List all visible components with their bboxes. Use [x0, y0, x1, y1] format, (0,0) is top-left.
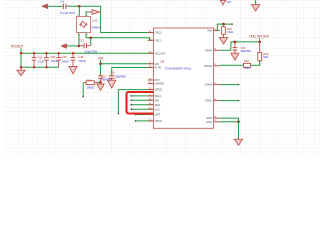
wire (port to C12): [48, 5, 63, 7]
ground (C62): [97, 82, 104, 90]
junction (C13 tap on OSC1 net): [89, 36, 92, 39]
capacitor C60 (100nF): [44, 53, 58, 67]
svg-text:nINT: nINT: [155, 113, 161, 117]
svg-text:U8: U8: [160, 59, 164, 63]
svg-text:100nF: 100nF: [78, 59, 86, 63]
svg-text:VIO: VIO: [98, 57, 104, 61]
capacitor C13 (8.2uF 50V): [79, 39, 99, 54]
capacitor C38 (100nF): [71, 53, 87, 66]
wire GND pins: [220, 118, 239, 122]
IC U8 (TCAN4550RGYRQ1): [154, 28, 214, 128]
wire (R24 to junction): [97, 81, 101, 83]
svg-text:50kΩ: 50kΩ: [244, 66, 250, 70]
svg-text:OSC1: OSC1: [155, 38, 163, 42]
svg-text:C36: C36: [61, 55, 66, 59]
svg-text:R24: R24: [87, 78, 92, 82]
wire to FLTR pin: [112, 67, 154, 69]
wire SDI: [131, 99, 153, 101]
IC U8 right pin stubs: [214, 31, 220, 122]
junction (crystal pin 4 / C13): [78, 45, 81, 48]
svg-text:10kΩ: 10kΩ: [227, 30, 233, 34]
net port (left arrow, C13 net): [61, 44, 67, 49]
wire CANH: [220, 84, 239, 86]
svg-text:RST: RST: [155, 78, 161, 82]
IC U8 right pin numbers: [214, 29, 217, 122]
ground (R27): [219, 38, 227, 44]
wire (VCCOUT label drop): [20, 48, 22, 67]
resistor R44 (50kOhm, horizontal): [243, 59, 250, 70]
capacitor C63 (100nF 50V): [233, 42, 252, 53]
annotation box (SPI pins highlight): [127, 92, 160, 114]
svg-text:SCLK: SCLK: [155, 94, 162, 98]
capacitor C61 (10uF): [32, 53, 45, 67]
wire nCS: [131, 108, 153, 110]
wire (ground return rail): [21, 66, 59, 68]
svg-text:VIO: VIO: [227, 0, 232, 4]
wire INH: [217, 24, 232, 30]
ground (C19): [108, 80, 116, 88]
wire (to crystal pin 1): [78, 6, 80, 16]
svg-text:CANL: CANL: [205, 99, 212, 103]
svg-text:FLTR: FLTR: [155, 66, 161, 70]
ground (GND net): [234, 139, 242, 145]
wire SCLK: [131, 95, 153, 97]
wire (R24 left leg down): [82, 83, 84, 97]
junction (VIO pin tap): [99, 63, 102, 66]
wire (bottom-right pin to OSC1): [86, 33, 153, 41]
wire nINT: [136, 114, 154, 116]
svg-text:10µF: 10µF: [38, 59, 45, 63]
crystal oscillator U10 (40MHz): [77, 15, 102, 36]
junction (VCCOUT label tap): [20, 52, 22, 54]
ground (left rail): [17, 67, 25, 75]
junction (R27 tap on INH net): [222, 23, 225, 26]
svg-text:5kΩ: 5kΩ: [263, 55, 268, 59]
svg-text:GND: GND: [206, 116, 212, 120]
svg-text:VCCOUT: VCCOUT: [155, 51, 166, 55]
ground (C63): [231, 53, 239, 60]
ground (under C38): [69, 67, 77, 74]
wire WAKE / R44 net: [220, 64, 244, 66]
svg-text:R44: R44: [244, 59, 249, 63]
svg-text:U10: U10: [92, 18, 98, 22]
svg-text:100kΩ: 100kΩ: [87, 85, 95, 89]
svg-text:WAKE: WAKE: [204, 64, 212, 68]
svg-text:CANH: CANH: [204, 83, 211, 87]
capacitor C36 (100nF): [56, 53, 69, 67]
svg-text:INH: INH: [207, 29, 212, 33]
wire (top-right pin to port): [86, 12, 91, 16]
svg-text:C19: C19: [110, 71, 115, 75]
wire (VCCOUT rail to IC): [21, 52, 154, 54]
svg-text:C60: C60: [50, 55, 55, 59]
wire VSUP: [220, 42, 235, 50]
wire to nWKRQ pin: [118, 90, 153, 114]
svg-text:C13: C13: [79, 39, 85, 43]
power port (top edge, VIO): [220, 0, 231, 6]
svg-text:SDO: SDO: [155, 103, 161, 107]
net port (right arrow, crystal pin 2): [89, 11, 93, 13]
svg-text:100nF 50V: 100nF 50V: [241, 49, 252, 53]
wire (C12 to OSC2 pin): [67, 6, 154, 32]
junction (C61 top): [33, 52, 35, 54]
wire (port to C13): [67, 45, 79, 47]
svg-text:VIO: VIO: [155, 62, 159, 66]
wire (VIO label drop): [100, 60, 102, 76]
svg-text:100nF: 100nF: [62, 59, 70, 63]
svg-text:100nF 50V: 100nF 50V: [101, 77, 112, 81]
svg-text:8.2µF 50V: 8.2µF 50V: [85, 49, 99, 53]
svg-text:40MHz: 40MHz: [92, 25, 102, 29]
resistor R40 (5kOhm): [258, 42, 269, 65]
svg-text:TCAN4550RGYRQ1: TCAN4550RGYRQ1: [165, 66, 192, 70]
resistor R24 (100kOhm): [83, 78, 97, 89]
junction (left ground corner): [20, 66, 22, 68]
svg-text:nWKRQ: nWKRQ: [155, 82, 165, 86]
junction (C62/R24): [99, 81, 102, 84]
wire (C13 right branch): [90, 38, 92, 46]
junction (C36 top): [57, 52, 59, 54]
wire SDO: [131, 104, 153, 106]
wire (bottom-left pin down): [78, 33, 80, 46]
wire VDD rail: [235, 41, 260, 43]
net port (left arrow, top net): [42, 4, 48, 9]
IC U8 right pin names: [204, 29, 212, 124]
junction (crystal top tap): [78, 5, 81, 8]
svg-text:GND: GND: [206, 120, 212, 124]
junction (C60 top): [45, 52, 47, 54]
capacitor C19 (100nF 50V): [109, 68, 126, 81]
svg-text:SDI: SDI: [155, 98, 160, 102]
wire CANL: [220, 100, 239, 102]
IC U8 left pin names: [155, 31, 166, 123]
svg-text:C38: C38: [78, 55, 83, 59]
top-right ground stub: [252, 0, 260, 11]
svg-text:VCCOUT: VCCOUT: [11, 45, 24, 49]
svg-text:8.2µF 50V: 8.2µF 50V: [60, 11, 76, 15]
svg-text:VSUP: VSUP: [205, 48, 212, 52]
svg-text:(+): (+): [60, 0, 64, 3]
IC U8 left pin numbers: [149, 31, 152, 121]
wire GPO2: [136, 120, 154, 122]
wire to VIO pin: [101, 63, 154, 65]
capacitor C12 (inline, 8.2uF 50V): [60, 0, 76, 15]
svg-text:nCS: nCS: [155, 107, 160, 111]
IC U8 left pin stubs: [148, 33, 154, 121]
junction (C60 bottom): [45, 66, 47, 68]
capacitor C62 (100nF 50V): [98, 74, 112, 82]
svg-text:GPO2: GPO2: [155, 119, 163, 123]
svg-text:C61: C61: [38, 55, 43, 59]
svg-text:100nF 50V: 100nF 50V: [115, 74, 126, 78]
svg-text:GPIO1: GPIO1: [155, 88, 163, 92]
resistor R27 (10kOhm): [222, 24, 234, 37]
wire GND down: [238, 122, 240, 139]
svg-text:OSC2: OSC2: [155, 31, 163, 35]
svg-text:VDD_3V3_SYS: VDD_3V3_SYS: [249, 35, 269, 39]
junction (C38 top): [72, 52, 74, 54]
junction (C61 bottom): [33, 66, 35, 68]
